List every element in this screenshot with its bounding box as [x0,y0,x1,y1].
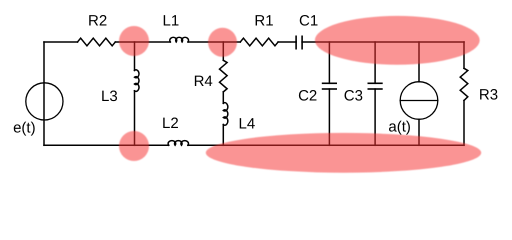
svg-text:e(t): e(t) [13,119,36,136]
resistor R3 [460,68,468,100]
svg-text:L1: L1 [163,12,180,29]
wire L2 to bottom-right corner [188,144,464,146]
svg-text:C1: C1 [299,12,318,29]
wire L3 branch upper stub [134,42,136,70]
wire R4 to L4 [222,92,224,103]
node 2 highlight [208,28,237,57]
wire a(t) branch lower stub [418,119,420,145]
net highlight bottom [206,133,481,173]
svg-text:L4: L4 [239,116,256,133]
svg-text:C2: C2 [298,87,317,104]
svg-text:R4: R4 [194,73,213,90]
wire left vertical [43,42,45,145]
capacitor C3 [368,83,382,89]
wire L4 branch lower stub [222,125,224,146]
inductor L2 [168,141,188,146]
svg-text:C3: C3 [344,87,363,104]
wire C2 branch lower stub [328,89,330,145]
svg-text:L2: L2 [162,115,179,132]
wire C3 branch upper stub [374,42,376,83]
wire bottom-left segment [44,144,169,146]
capacitor C2 [323,83,337,89]
wire R1 to C1 [278,41,296,43]
wire top-left segment [44,41,78,43]
wire C2 branch upper stub [328,42,330,83]
resistor R2 [78,38,116,46]
wire R2 to L1 (through node 1) [115,41,170,43]
wire R4 branch upper stub [222,42,224,60]
svg-text:R2: R2 [88,12,107,29]
wire right vertical lower stub [463,101,465,146]
svg-text:a(t): a(t) [388,119,411,136]
net highlight top-right [315,16,480,65]
inductor L1 [170,37,189,42]
wire C3 branch lower stub [374,89,376,145]
wire L3 branch lower stub [134,91,136,146]
wire C1 to top-right corner [302,41,464,43]
wire right vertical upper stub [463,42,465,68]
wire L1 to R1 (through node 2) [188,41,240,43]
inductor L3 [135,70,139,92]
node 3 highlight [119,131,149,161]
node 1 highlight [119,26,149,56]
svg-text:R1: R1 [254,12,273,29]
resistor R4 [220,60,228,92]
current source a(t) [400,82,438,120]
voltage source e(t) [26,83,63,120]
wire a(t) branch upper stub [418,42,420,82]
svg-text:R3: R3 [479,86,498,103]
svg-text:L3: L3 [101,88,118,105]
inductor L4 [223,103,227,126]
capacitor C1 [296,36,302,48]
resistor R1 [240,38,278,46]
